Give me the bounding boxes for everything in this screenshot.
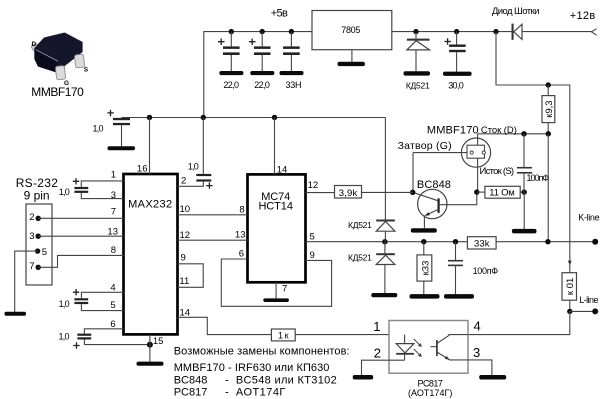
svg-text:MMBF170 - IRF630 или КП630: MMBF170 - IRF630 или КП630 xyxy=(174,362,330,374)
capacitor C11 1,0 pin6 xyxy=(73,329,150,349)
wire +5V rail xyxy=(204,32,312,118)
svg-text:2: 2 xyxy=(181,176,186,187)
svg-text:КД521: КД521 xyxy=(406,81,430,91)
svg-text:2: 2 xyxy=(29,212,34,223)
IC U1 MAX232 xyxy=(124,174,178,334)
svg-text:Сток (D): Сток (D) xyxy=(481,125,517,136)
arrow on L feed wire xyxy=(568,261,572,266)
svg-text:5: 5 xyxy=(310,231,315,242)
svg-text:1: 1 xyxy=(373,319,380,334)
wire max14 to R7 xyxy=(178,317,272,334)
wire R7 to opto pin1 xyxy=(295,334,389,336)
svg-text:АОТ174Г: АОТ174Г xyxy=(236,387,286,399)
svg-text:MMBF170: MMBF170 xyxy=(427,124,479,136)
node drain-R2 xyxy=(546,131,551,136)
svg-text:11: 11 xyxy=(179,276,189,287)
svg-text:11 Ом: 11 Ом xyxy=(489,188,515,199)
ground C3 xyxy=(250,71,274,75)
ground C4 xyxy=(280,71,304,75)
wire hct12 to R1 xyxy=(306,192,335,194)
svg-text:2: 2 xyxy=(374,345,381,360)
wire K-line net xyxy=(306,241,468,243)
ground 7805 xyxy=(338,62,365,66)
svg-text:КД521: КД521 xyxy=(348,253,372,263)
svg-text:1,0: 1,0 xyxy=(93,124,104,134)
IC U2 MC74HCT14 xyxy=(248,174,306,282)
svg-text:КД521: КД521 xyxy=(348,220,372,230)
node base xyxy=(410,190,415,195)
svg-text:12: 12 xyxy=(308,180,319,191)
diode D1 KD521 top xyxy=(407,32,430,72)
svg-text:(АОТ174Г): (АОТ174Г) xyxy=(408,388,452,398)
svg-text:K-line: K-line xyxy=(578,212,599,222)
optocoupler U4 PC817 xyxy=(389,321,468,374)
svg-text:RS-232: RS-232 xyxy=(16,176,59,190)
svg-text:5: 5 xyxy=(110,300,115,311)
node rail-cap1 xyxy=(229,29,234,34)
ground C12 xyxy=(444,294,474,299)
svg-text:к9,3: к9,3 xyxy=(544,100,555,117)
svg-text:BC548 или КТ3102: BC548 или КТ3102 xyxy=(236,374,337,386)
capacitor C5 30,0 xyxy=(444,32,465,72)
capacitor C6 100pF right xyxy=(517,134,532,192)
capacitor C2 22,0 xyxy=(218,32,240,72)
svg-text:+12в: +12в xyxy=(570,10,596,22)
ground C5 xyxy=(443,72,472,76)
svg-text:к33: к33 xyxy=(420,261,431,276)
svg-text:3,9k: 3,9k xyxy=(339,188,358,199)
svg-text:7: 7 xyxy=(282,284,287,295)
wire pin16 stem xyxy=(149,118,151,175)
node drain-cap xyxy=(521,131,526,136)
wire K vertical xyxy=(547,134,549,242)
svg-text:7: 7 xyxy=(29,261,34,272)
capacitor C3 22,0 xyxy=(249,32,271,72)
svg-text:22,0: 22,0 xyxy=(254,80,270,90)
svg-text:9: 9 xyxy=(310,250,315,261)
ground C2 xyxy=(219,71,243,75)
wire rs232-7 to max8 xyxy=(38,255,123,267)
node L-junction xyxy=(567,309,572,314)
svg-text:7: 7 xyxy=(111,206,116,217)
wire rs232-2 to max7 xyxy=(38,217,123,219)
svg-text:HCT14: HCT14 xyxy=(258,201,293,213)
svg-text:MAX232: MAX232 xyxy=(128,198,172,210)
wire L-line stub xyxy=(570,310,595,312)
wire gate riser xyxy=(412,153,414,193)
wire opto pin3 to ground xyxy=(468,360,492,375)
connector J1 DB9 xyxy=(26,204,52,285)
ground Q3 emitter xyxy=(411,228,437,232)
svg-text:Затвор (G): Затвор (G) xyxy=(398,140,452,152)
node +5-pin16 xyxy=(147,115,152,120)
resistor R6 10k vertical xyxy=(562,273,577,312)
LED light arrows xyxy=(414,339,422,357)
ground D1 xyxy=(404,71,431,75)
node k-r4 xyxy=(421,239,426,244)
node 12v-R2 xyxy=(546,82,551,87)
node rail-cap2 xyxy=(260,29,265,34)
node L-end xyxy=(592,308,598,314)
svg-text:100пФ: 100пФ xyxy=(527,173,550,183)
svg-text:3: 3 xyxy=(473,345,480,360)
svg-text:3: 3 xyxy=(111,190,116,201)
svg-text:D: D xyxy=(32,41,37,48)
wire 11om to ground xyxy=(523,192,525,229)
wire drain rail xyxy=(478,133,549,135)
svg-text:-: - xyxy=(225,374,229,386)
LED inside opto xyxy=(396,335,414,361)
svg-text:14: 14 xyxy=(277,164,288,175)
ground opto pin2 xyxy=(353,375,374,380)
svg-text:15: 15 xyxy=(153,336,164,347)
connector arrow +12v xyxy=(591,29,596,35)
svg-text:12: 12 xyxy=(180,230,191,241)
node rs232-2 xyxy=(36,216,41,221)
wire rs232-3 to max13 xyxy=(38,235,123,237)
svg-text:S: S xyxy=(84,66,89,73)
node rail-cap3 xyxy=(289,29,294,34)
wire max12 to hct13 xyxy=(178,239,248,241)
ground rs232 xyxy=(5,312,27,316)
svg-text:BC848: BC848 xyxy=(174,374,208,386)
resistor R7 1k xyxy=(271,329,295,341)
diode D4 KD521 lower xyxy=(376,242,395,293)
capacitor C12 100pF left xyxy=(448,242,463,295)
notes text xyxy=(174,345,350,398)
svg-text:1,0: 1,0 xyxy=(59,187,70,197)
wire pin15 ground xyxy=(149,334,151,361)
svg-text:PC817: PC817 xyxy=(418,378,443,388)
resistor R3 11 Om xyxy=(477,186,524,198)
wire +12v branch down-right xyxy=(496,32,570,273)
node source-11om xyxy=(474,189,479,194)
node out-D1 xyxy=(413,29,418,34)
node +5-c7 xyxy=(201,115,206,120)
node k-end xyxy=(592,239,598,245)
svg-text:Исток (S): Исток (S) xyxy=(480,166,515,177)
node out-schottky xyxy=(493,29,498,34)
svg-text:22,0: 22,0 xyxy=(223,80,239,90)
resistor R2 3,9k vertical xyxy=(542,85,555,134)
node rs232-7 xyxy=(36,265,41,270)
wire L to opto pin4 xyxy=(468,311,570,334)
wire 33k to K-line end xyxy=(496,241,595,243)
ground 11om xyxy=(512,229,537,234)
svg-text:30,0: 30,0 xyxy=(448,81,464,91)
wire 7805 output to diode xyxy=(392,31,512,33)
wire pin14 stem xyxy=(274,118,276,175)
regulator U3 7805 xyxy=(312,11,392,50)
svg-text:1,0: 1,0 xyxy=(59,332,70,342)
wire rs232-5 to ground xyxy=(15,251,38,312)
svg-text:MMBF170: MMBF170 xyxy=(31,85,84,99)
svg-text:3: 3 xyxy=(29,231,34,242)
node k-c12 xyxy=(453,239,458,244)
capacitor C4 33N xyxy=(283,32,300,72)
svg-text:5: 5 xyxy=(42,247,47,258)
wire hct6-9 loop xyxy=(221,259,331,306)
transistor Q3 BC848 xyxy=(413,189,477,228)
wire max10 to hct8 xyxy=(178,214,248,216)
svg-text:+5в: +5в xyxy=(271,8,288,20)
svg-text:9: 9 xyxy=(181,253,186,264)
node out-C5 xyxy=(454,29,459,34)
node rs232-5 xyxy=(35,248,40,253)
ground opto pin3 xyxy=(479,375,506,380)
wire opto pin2 to ground xyxy=(362,360,405,375)
wire +5 distribution xyxy=(122,117,386,119)
node k-d3 xyxy=(382,239,387,244)
capacitor C8 1,0 left xyxy=(107,110,130,147)
svg-text:8: 8 xyxy=(111,245,116,256)
svg-text:13: 13 xyxy=(235,229,246,240)
svg-text:к 01: к 01 xyxy=(565,278,576,295)
ground D4 xyxy=(371,293,397,297)
resistor R4 33k vertical xyxy=(417,242,432,295)
diode D3 KD521 upper xyxy=(376,118,395,242)
svg-text:6: 6 xyxy=(239,249,244,260)
wire R1 to base node xyxy=(362,191,413,193)
svg-text:8: 8 xyxy=(239,204,244,215)
svg-text:L-line: L-line xyxy=(579,295,598,305)
svg-text:16: 16 xyxy=(137,164,148,175)
svg-text:1: 1 xyxy=(111,170,116,181)
node pin15 xyxy=(147,342,153,348)
ground C8 xyxy=(108,146,136,150)
capacitor C10 1,0 pins4-5 xyxy=(73,289,124,311)
svg-text:PC817: PC817 xyxy=(174,387,208,399)
svg-text:-: - xyxy=(225,387,229,399)
wire max9-11 loop xyxy=(178,264,204,288)
svg-text:7805: 7805 xyxy=(341,25,360,35)
node rs232-3 xyxy=(36,234,41,239)
svg-text:13: 13 xyxy=(107,227,118,238)
node 11om-right xyxy=(522,189,527,194)
transistor Q1 MMBF170 package pictorial xyxy=(31,33,85,80)
wire hct7 ground stem xyxy=(275,282,277,298)
ground R4 xyxy=(410,294,440,299)
ground MAX232 xyxy=(137,362,164,366)
svg-text:1,0: 1,0 xyxy=(59,299,70,309)
svg-text:100пФ: 100пФ xyxy=(473,266,499,276)
wire to +12v xyxy=(522,31,591,33)
svg-text:Возможные замены компонентов:: Возможные замены компонентов: xyxy=(174,345,350,357)
svg-text:10: 10 xyxy=(180,204,191,215)
resistor R5 33k horizontal xyxy=(467,237,496,250)
svg-text:9 pin: 9 pin xyxy=(24,189,50,203)
svg-text:33Н: 33Н xyxy=(285,80,301,90)
ground hct7 xyxy=(263,298,289,302)
capacitor C9 1,0 pins1-3 xyxy=(73,178,124,199)
svg-text:1,0: 1,0 xyxy=(188,162,199,172)
transistor Q2 MMBF170 mosfet xyxy=(413,134,491,192)
diode D2 Schottky xyxy=(512,24,523,40)
node k-vert xyxy=(545,239,550,244)
node +5-pin14 xyxy=(272,115,277,120)
svg-text:4: 4 xyxy=(474,319,481,334)
svg-text:33k: 33k xyxy=(474,238,490,249)
capacitor C7 1,0 at pin2 xyxy=(178,118,213,189)
wire 7805 ground stem xyxy=(351,50,353,62)
resistor R1 3,9k xyxy=(335,186,362,199)
phototransistor inside opto xyxy=(431,335,469,360)
svg-text:Диод Шотки: Диод Шотки xyxy=(492,6,540,17)
